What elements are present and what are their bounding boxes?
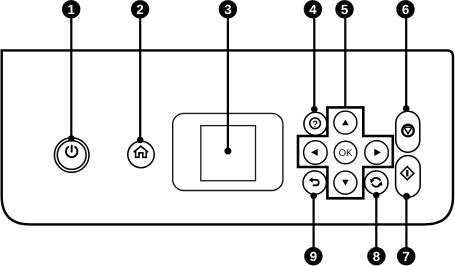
svg-text:OK: OK <box>339 148 353 159</box>
svg-text:1: 1 <box>68 2 75 17</box>
svg-text:7: 7 <box>403 249 410 264</box>
svg-text:6: 6 <box>402 2 409 17</box>
svg-text:3: 3 <box>224 2 231 17</box>
svg-text:9: 9 <box>310 249 317 264</box>
svg-text:4: 4 <box>309 2 317 17</box>
svg-text:5: 5 <box>341 2 348 17</box>
svg-text:2: 2 <box>136 2 143 17</box>
svg-text:?: ? <box>312 119 318 129</box>
svg-text:8: 8 <box>373 249 380 264</box>
